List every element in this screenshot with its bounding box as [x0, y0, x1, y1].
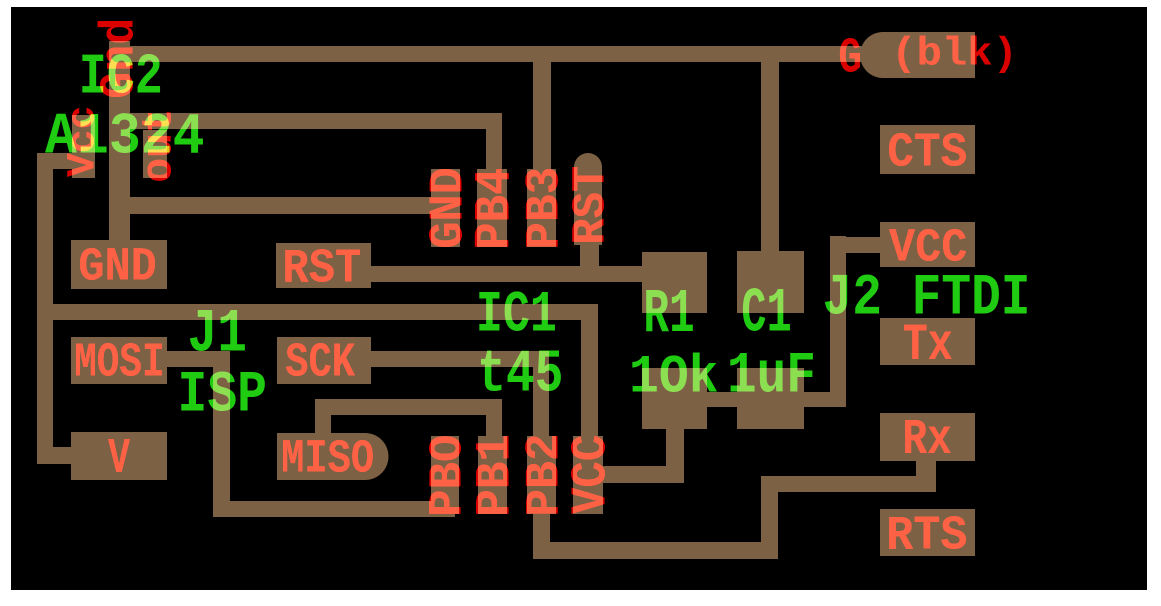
wire elbow into V pad — [37, 447, 80, 464]
pad R1 top — [642, 252, 707, 313]
pad J1 V — [71, 432, 167, 480]
wire MOSI bottom horizontal — [213, 501, 455, 517]
wire vertical into VCC pad — [581, 304, 598, 440]
svg-text:MISO: MISO — [281, 434, 374, 487]
svg-text:J1: J1 — [188, 300, 248, 369]
pad IC1 RST, rounded top end — [574, 153, 602, 245]
svg-text:IC1: IC1 — [476, 281, 557, 348]
pad J2 RTS — [880, 509, 975, 556]
svg-text:J2 FTDI: J2 FTDI — [823, 264, 1031, 331]
svg-text:G: G — [838, 31, 862, 88]
svg-text:Rx: Rx — [903, 412, 952, 469]
wire Rx stub — [916, 457, 936, 492]
wire RST trace to R1 — [365, 266, 650, 282]
wire left VCC vertical — [37, 153, 53, 464]
wire R1 bottom vertical — [666, 429, 684, 483]
svg-text:CTS: CTS — [887, 126, 967, 181]
pad J2 G (blk), rounded left end — [860, 32, 975, 78]
wire R1-C1 bottom bar — [700, 392, 744, 407]
wire MISO loop left vertical — [315, 399, 331, 437]
wire MOSI vertical — [213, 351, 230, 517]
wire out trace (IC2 to PB4) — [109, 113, 502, 129]
pad J1 MISO, rounded right end — [277, 433, 388, 480]
svg-text:PB4: PB4 — [468, 168, 525, 250]
pad C1 bottom — [737, 368, 804, 429]
wire vertical to PB3 — [533, 46, 551, 169]
wire vertical into PB4 — [486, 113, 502, 169]
pad J2 Tx — [880, 318, 975, 365]
svg-text:RTS: RTS — [886, 509, 967, 564]
svg-text:RST: RST — [282, 242, 361, 297]
wire PB2 bottom vertical — [533, 510, 550, 559]
wire MISO loop vertical into PB1 — [486, 399, 502, 440]
pad J1 GND — [71, 240, 167, 289]
pad IC1 VCC — [573, 436, 603, 514]
svg-text:ISP: ISP — [178, 361, 268, 428]
pad IC1 GND — [431, 169, 460, 247]
svg-text:RST: RST — [566, 166, 619, 245]
pad J1 MOSI — [71, 337, 167, 384]
wire bottom Rx horizontal — [533, 542, 778, 559]
wire MOSI trace right — [160, 351, 230, 367]
pad IC2 out — [143, 130, 167, 178]
pad C1 top — [737, 251, 804, 313]
wire RST stub vertical — [580, 243, 599, 266]
svg-text:PB1: PB1 — [468, 434, 524, 517]
svg-text:t45: t45 — [477, 341, 563, 409]
pad J2 VCC — [880, 222, 975, 267]
wire MISO loop horizontal — [315, 399, 502, 415]
wire C1 bottom to J2 horizontal — [798, 392, 846, 407]
pad J2 Rx — [880, 413, 975, 461]
pad J2 CTS — [880, 125, 975, 174]
wire Rx horizontal — [761, 476, 936, 492]
svg-text:MOSI: MOSI — [74, 336, 165, 391]
svg-text:1Ok: 1Ok — [629, 348, 719, 409]
wire J2 VCC horizontal into pad — [830, 237, 885, 253]
svg-text:V: V — [108, 431, 130, 488]
wire Rx riser vertical — [761, 476, 778, 559]
wire J1 VCC horizontal — [45, 304, 598, 320]
svg-text:IC2: IC2 — [79, 45, 163, 110]
svg-text:PB3: PB3 — [518, 167, 573, 250]
pad IC2 Vcc — [72, 115, 95, 178]
pad IC1 PB4 — [477, 169, 507, 247]
pad J1 RST — [276, 243, 371, 288]
svg-text:C1: C1 — [741, 277, 791, 349]
pad IC1 PB0 — [431, 436, 459, 514]
svg-text:A1324: A1324 — [45, 103, 205, 170]
wire Vcc stub — [37, 153, 72, 169]
wire VCC to R1 horizontal — [597, 466, 684, 483]
wire GND trace to IC1 GND pad — [109, 197, 445, 214]
svg-text:GND: GND — [78, 242, 157, 295]
wire vertical to C1 top — [761, 46, 779, 251]
svg-text:1uF: 1uF — [727, 342, 816, 409]
pad R1 bottom — [642, 368, 707, 429]
pad IC1 PB3 — [527, 169, 556, 247]
pad IC1 PB2 — [527, 436, 556, 514]
wire SCK trace right — [365, 351, 549, 367]
wire GND net: IC2 Gnd to J2 G pad (top horizontal) — [109, 46, 875, 62]
wire J2 VCC vertical — [830, 236, 846, 407]
svg-text:VCC: VCC — [564, 435, 621, 514]
wire SCK vertical into PB2 — [533, 351, 549, 440]
svg-text:(blk): (blk) — [891, 32, 1018, 77]
svg-text:SCK: SCK — [285, 336, 356, 391]
pad IC1 PB1 — [478, 436, 507, 514]
pad J1 SCK — [277, 337, 371, 384]
wire IC2 pin column — [109, 41, 130, 250]
svg-text:R1: R1 — [643, 279, 694, 350]
